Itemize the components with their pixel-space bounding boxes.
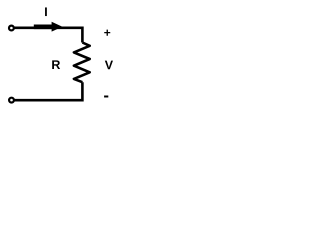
resistor R (zigzag) <box>74 43 90 83</box>
label I <box>45 7 47 16</box>
background <box>0 0 123 118</box>
label + <box>104 30 110 36</box>
current arrow for I <box>34 22 63 32</box>
label V <box>105 61 113 70</box>
label R <box>52 60 60 69</box>
label - <box>104 96 108 98</box>
wire (bottom: resistor lead down, left to terminal) <box>15 82 83 100</box>
node/terminal (bottom-left, open circle) <box>9 98 14 103</box>
node/terminal (top-left, open circle) <box>9 26 14 31</box>
wire (top: from terminal right, corner, down into resistor) <box>15 28 83 43</box>
